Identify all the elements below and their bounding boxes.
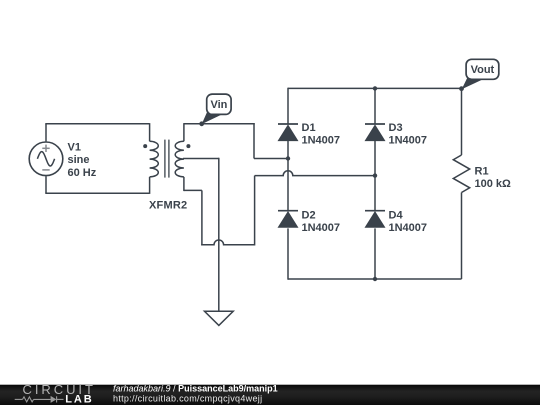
wire R1 top <box>461 88 463 155</box>
junction dot D1-D2 midpoint <box>286 156 290 160</box>
wire ground vertical <box>218 158 220 311</box>
svg-text:1N4007: 1N4007 <box>389 134 428 146</box>
svg-text:D1: D1 <box>302 122 316 134</box>
wire R1 bottom <box>461 193 463 280</box>
wire Vin column down <box>253 123 255 158</box>
flag Vout <box>462 59 499 89</box>
svg-text:D4: D4 <box>389 210 404 222</box>
svg-text:Vout: Vout <box>471 64 495 76</box>
wire left column top <box>287 88 289 124</box>
label R1 100 kOhm <box>475 165 512 190</box>
logo glyph diode <box>51 396 57 403</box>
primary dot <box>143 144 147 148</box>
junction dot Vout node <box>459 86 464 91</box>
label D4 1N4007 <box>389 210 428 235</box>
wire secondary top to Vin node <box>184 123 255 125</box>
voltage source V1 <box>29 142 63 176</box>
junction dot top rail <box>373 86 377 90</box>
wire bottom rail <box>288 278 462 280</box>
transformer XFMR2 primary winding <box>150 123 159 194</box>
svg-text:100 kΩ: 100 kΩ <box>475 178 512 190</box>
wire V1 top <box>45 124 47 142</box>
diode D2 <box>278 211 298 228</box>
diode D4 <box>365 211 385 228</box>
svg-text:V1: V1 <box>68 141 81 153</box>
wire middle column mid <box>374 140 376 211</box>
label V1 sine 60 Hz <box>68 141 97 179</box>
wire bottom with hop over ground wire <box>201 240 254 245</box>
secondary dot <box>186 144 190 148</box>
wire center tap horizontal <box>183 158 219 160</box>
transformer core <box>165 140 169 178</box>
transformer XFMR2 secondary winding <box>175 123 184 191</box>
wire left column mid <box>287 140 289 211</box>
logo circuit glyph wire <box>15 396 64 402</box>
svg-text:1N4007: 1N4007 <box>302 134 341 146</box>
diode D1 <box>278 124 298 141</box>
wire lower column up <box>254 176 256 246</box>
wire middle column top <box>374 88 376 124</box>
footer bar <box>0 385 540 405</box>
svg-text:D3: D3 <box>389 122 403 134</box>
wire secondary bottom <box>184 189 202 191</box>
svg-text:1N4007: 1N4007 <box>389 222 428 234</box>
resistor R1 <box>453 155 469 193</box>
svg-text:60 Hz: 60 Hz <box>68 167 97 179</box>
diode D3 <box>365 124 385 141</box>
svg-text:D2: D2 <box>302 210 316 222</box>
svg-text:Vin: Vin <box>210 99 227 111</box>
flag Vin <box>202 94 231 124</box>
junction dot at Vin node <box>199 121 204 126</box>
label D3 1N4007 <box>389 122 428 147</box>
svg-text:R1: R1 <box>475 165 489 177</box>
wire to D3-D4 midpoint with hop over bridge wire <box>255 171 375 176</box>
wire to D1-D2 midpoint <box>254 158 288 160</box>
svg-text:LAB: LAB <box>65 393 93 405</box>
wire bottom left rail <box>45 192 149 194</box>
label D1 1N4007 <box>302 122 341 147</box>
label D2 1N4007 <box>302 210 341 235</box>
wire left column bottom <box>287 228 289 279</box>
wire top left rail <box>45 123 149 125</box>
svg-text:sine: sine <box>68 154 90 166</box>
ground symbol <box>205 311 234 325</box>
wire middle column bottom <box>374 228 376 279</box>
logo glyph resistor zigzag <box>23 397 34 402</box>
junction dot bottom rail <box>373 277 377 281</box>
wire top rail <box>288 87 462 89</box>
svg-text:XFMR2: XFMR2 <box>149 200 187 212</box>
svg-text:1N4007: 1N4007 <box>302 222 341 234</box>
svg-text:farhadakbari.9 / PuissanceLab9: farhadakbari.9 / PuissanceLab9/manip1 <box>113 383 278 393</box>
junction dot D3-D4 midpoint <box>373 173 377 177</box>
svg-text:http://circuitlab.com/cmpqcjvq: http://circuitlab.com/cmpqcjvq4wejj <box>113 393 262 403</box>
wire V1 bottom <box>45 176 47 193</box>
